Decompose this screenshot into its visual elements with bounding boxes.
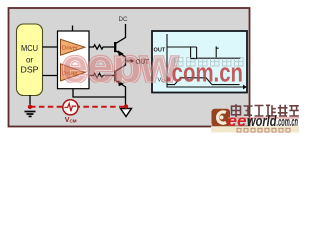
svg-text:OUT: OUT [154,48,166,54]
svg-text:ee: ee [228,113,247,130]
svg-text:.com.cn: .com.cn [277,114,299,129]
svg-text:DC: DC [119,16,128,23]
svg-text:MCU: MCU [21,43,38,53]
svg-text:world: world [247,113,277,130]
svg-text:Driver: Driver [62,46,78,52]
svg-text:DSP: DSP [21,65,39,75]
svg-text:or: or [26,56,33,65]
svg-text:VCM: VCM [65,117,77,124]
